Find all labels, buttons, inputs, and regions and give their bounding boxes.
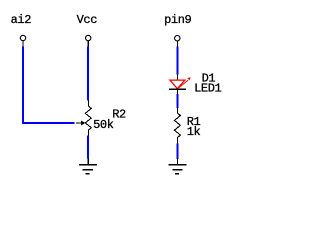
svg-text:1k: 1k bbox=[187, 125, 201, 139]
wire pin9 to D1 bbox=[176, 47, 178, 75]
resistor R1 body bbox=[174, 108, 180, 144]
svg-text:Vcc: Vcc bbox=[77, 13, 98, 27]
pin terminal pin9 bbox=[175, 36, 180, 41]
wire D1 to R1 bbox=[176, 94, 178, 108]
svg-text:R2: R2 bbox=[112, 108, 126, 122]
LED D1 cathode bar bbox=[169, 88, 186, 90]
wire ai2 vertical + horizontal to wiper bbox=[23, 47, 75, 124]
potentiometer R2 body bbox=[85, 100, 91, 136]
wiper arrowhead bbox=[81, 121, 85, 126]
wiper arrow lead bbox=[76, 122, 82, 124]
D1 anode lead bbox=[176, 74, 178, 80]
svg-text:ai2: ai2 bbox=[11, 13, 32, 27]
wire R1 to ground bbox=[176, 144, 178, 159]
LED D1 triangle bbox=[170, 80, 185, 89]
svg-text:50k: 50k bbox=[93, 118, 114, 132]
pin terminal Vcc bbox=[86, 35, 91, 40]
svg-text:pin9: pin9 bbox=[164, 13, 191, 27]
wire R2 to ground bbox=[87, 136, 89, 159]
pin terminal ai2 bbox=[20, 35, 25, 40]
wire Vcc to R2 bbox=[87, 47, 89, 101]
ground (left) bbox=[79, 158, 97, 174]
svg-text:LED1: LED1 bbox=[194, 82, 221, 96]
LED light arrow bbox=[179, 80, 189, 88]
D1 cathode lead bbox=[176, 90, 178, 95]
ground (right) bbox=[168, 158, 186, 174]
